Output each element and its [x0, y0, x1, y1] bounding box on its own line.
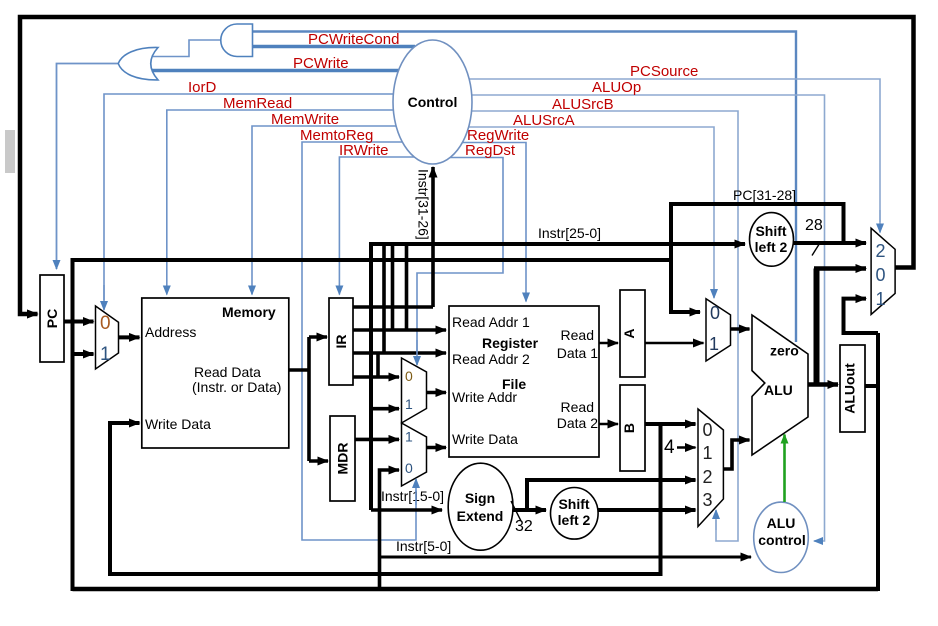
- svg-text:Read Addr 1: Read Addr 1: [452, 314, 530, 330]
- wire: IRWrite: [339, 157, 415, 295]
- svg-text:PCWrite: PCWrite: [293, 55, 349, 72]
- svg-text:Read Addr 2: Read Addr 2: [452, 351, 530, 367]
- wire: address mux output: [119, 335, 140, 339]
- Sign Extend oval: [448, 463, 513, 550]
- wire: MDR to write data mux 1: [355, 438, 399, 442]
- wire: RegDst arrow tip: [416, 340, 418, 365]
- wire: ALUSrcB mux out: [723, 440, 749, 469]
- wire: PC feedback loop (mux output, right/top/left border): [20, 17, 914, 314]
- svg-text:Extend: Extend: [457, 508, 504, 524]
- svg-text:ALUout: ALUout: [842, 363, 858, 414]
- OR gate: [118, 47, 158, 79]
- svg-text:0: 0: [710, 303, 720, 323]
- svg-text:0: 0: [405, 460, 413, 476]
- svg-text:32: 32: [515, 518, 533, 535]
- wire: RegWrite: [460, 143, 526, 302]
- MDR register: [330, 416, 355, 501]
- svg-text:Control: Control: [408, 94, 458, 110]
- wire: PCWrite thick: [152, 69, 400, 73]
- svg-text:Instr[15-0]: Instr[15-0]: [381, 488, 444, 504]
- wire: ALU output: [808, 382, 838, 387]
- bus riser 4: [405, 244, 409, 330]
- A register: [620, 290, 645, 377]
- ALU control oval: [754, 502, 809, 572]
- svg-text:(Instr. or Data): (Instr. or Data): [192, 379, 281, 395]
- wire: AND gate output: [153, 40, 222, 57]
- svg-text:1: 1: [876, 289, 886, 309]
- wire: PCWriteCond thick: [253, 45, 416, 49]
- wire: sign extend out: [513, 508, 546, 512]
- wire: ALUSrcA arrow tip: [713, 280, 715, 298]
- wire: A to ALUSrcA mux 1: [645, 342, 704, 345]
- svg-text:1: 1: [100, 344, 111, 365]
- ALUSrcB mux 0123: [698, 409, 723, 527]
- wire: ALU control to ALU (green): [783, 435, 786, 503]
- wire: PC out vertical branch: [71, 258, 75, 591]
- wire: ALUout feedback to address mux 1: [73, 352, 94, 356]
- svg-text:0: 0: [405, 368, 413, 384]
- 28 slash tick: [812, 242, 821, 256]
- 32 slash tick: [511, 501, 521, 521]
- svg-text:Data 1: Data 1: [557, 345, 598, 361]
- svg-text:PC: PC: [44, 309, 60, 328]
- wire: ALUout to PCSource mux 1: [844, 299, 879, 333]
- write data mux (MemtoReg): [402, 423, 427, 486]
- svg-text:ALU: ALU: [767, 515, 796, 531]
- svg-text:PCWriteCond: PCWriteCond: [308, 31, 399, 48]
- svg-text:B: B: [621, 423, 637, 433]
- svg-text:IRWrite: IRWrite: [339, 142, 388, 159]
- wire: Instr[5-0] to ALU control: [380, 556, 752, 559]
- wire: MemtoReg arrow tip: [415, 479, 417, 505]
- wire: ALUSrcB: [470, 111, 738, 541]
- svg-text:ALUOp: ALUOp: [592, 79, 641, 96]
- wire: ALU result riser to PCSource mux 0: [814, 269, 820, 387]
- wire: write data mux output: [427, 446, 447, 450]
- svg-text:Shift: Shift: [558, 496, 589, 512]
- wire: read data 1 to A: [599, 342, 618, 345]
- wire: PC[31-28] path: [671, 204, 844, 262]
- svg-text:2: 2: [876, 241, 886, 261]
- wire: arrow into MDR: [309, 459, 328, 463]
- svg-text:3: 3: [703, 490, 713, 510]
- wire: PC line (PC value bus): [73, 258, 672, 262]
- Register File box: [449, 306, 599, 457]
- wire: write data riser: [110, 423, 140, 576]
- wire: ALUSrcA mux out: [731, 327, 750, 331]
- wire: to IR and MDR: [307, 337, 311, 461]
- wire: sign extend branch to mux 2: [527, 480, 696, 510]
- wire: IorD arrow tip: [103, 285, 105, 310]
- wire: B to memory write data horizontal: [110, 572, 661, 576]
- svg-text:MDR: MDR: [335, 443, 351, 475]
- write addr mux (RegDst): [402, 358, 427, 423]
- svg-text:Write Data: Write Data: [452, 431, 518, 447]
- wire: ALUOp: [471, 95, 825, 541]
- wire: Instr[25-0] bus: [371, 244, 745, 510]
- Memory box: [142, 298, 289, 448]
- wire: write addr mux input 1: [371, 407, 399, 411]
- ALUSrcA mux: [706, 299, 731, 361]
- PC register: [40, 275, 64, 362]
- wire: shift left 2 out to mux 3: [598, 508, 696, 512]
- wire: write data mux 0 riser: [380, 470, 400, 591]
- IR register: [329, 298, 353, 385]
- svg-text:Write Addr: Write Addr: [452, 389, 517, 405]
- wire: ALUout right vertical: [876, 333, 880, 591]
- wire: zero line to AND gate: [253, 32, 797, 343]
- svg-text:MemWrite: MemWrite: [271, 111, 339, 128]
- svg-text:Data 2: Data 2: [557, 415, 598, 431]
- wire: shift left 2 to PCSource mux 2: [794, 241, 867, 245]
- wire: IR to Read Addr 2: [353, 351, 446, 355]
- wire: read data 2 to B: [599, 423, 618, 426]
- wire: IR out Instr[31-26] horizontal: [353, 305, 433, 309]
- B register: [620, 385, 645, 471]
- wire: MemtoReg: [302, 142, 416, 540]
- svg-text:2: 2: [703, 467, 713, 487]
- svg-text:Register: Register: [482, 335, 539, 351]
- svg-text:Shift: Shift: [755, 223, 786, 239]
- wire: MemRead: [167, 110, 394, 295]
- wire: PC to ALUSrcA mux 0: [671, 260, 700, 312]
- svg-text:Read Data: Read Data: [194, 364, 261, 380]
- Shift left 2 oval (upper): [750, 213, 794, 267]
- svg-text:left 2: left 2: [558, 512, 591, 528]
- svg-text:Instr[5-0]: Instr[5-0]: [396, 538, 451, 554]
- wire: ALUSrcB arrow tip: [715, 510, 717, 530]
- wire: IR to Read Addr 1: [353, 328, 446, 332]
- wire: RegDst: [417, 158, 503, 356]
- svg-text:left 2: left 2: [755, 239, 788, 255]
- wire: PC output to address mux: [64, 320, 94, 324]
- bus riser 2: [382, 244, 386, 353]
- svg-text:ALUSrcB: ALUSrcB: [552, 96, 614, 113]
- svg-text:Address: Address: [145, 324, 196, 340]
- ALUout register: [840, 345, 865, 432]
- svg-text:PCSource: PCSource: [630, 63, 698, 80]
- PCSource mux 2-0-1: [871, 228, 895, 314]
- svg-text:control: control: [758, 532, 805, 548]
- svg-text:0: 0: [100, 313, 111, 334]
- wire: ALUSrcA: [468, 127, 714, 290]
- svg-text:RegDst: RegDst: [465, 142, 516, 159]
- wire: B to ALUSrcB mux 0: [645, 422, 696, 426]
- control oval U-Control: [393, 40, 472, 164]
- wire: PCSource arrow tip: [879, 210, 881, 233]
- svg-text:Instr[25-0]: Instr[25-0]: [538, 225, 601, 241]
- svg-text:0: 0: [703, 420, 713, 440]
- wire: PC input arrow: [22, 312, 38, 316]
- svg-text:Sign: Sign: [465, 490, 495, 506]
- svg-text:1: 1: [709, 334, 719, 354]
- svg-text:PC[31-28]: PC[31-28]: [733, 187, 796, 203]
- wire: Instr[31-26] to Control: [431, 167, 435, 307]
- svg-text:1: 1: [703, 443, 713, 463]
- wire: memory read data out: [289, 368, 309, 372]
- svg-text:4: 4: [664, 437, 675, 458]
- wire: constant 4 to mux 1: [677, 446, 696, 449]
- Shift left 2 oval (lower): [551, 488, 599, 540]
- wire: arrow into IR: [309, 335, 327, 339]
- svg-text:Write Data: Write Data: [145, 416, 211, 432]
- AND gate: [221, 24, 253, 57]
- gray slide-edge fragment: [5, 130, 15, 173]
- svg-text:zero: zero: [770, 343, 799, 359]
- bus riser 3: [391, 244, 395, 330]
- wire: bottom ALUout feedback: [73, 587, 879, 592]
- wire: ALUout output: [865, 384, 878, 388]
- wire: B down riser: [659, 424, 663, 576]
- wire: MemWrite: [252, 126, 397, 295]
- wire: IorD: [104, 94, 394, 300]
- svg-text:1: 1: [405, 429, 413, 445]
- svg-text:ALU: ALU: [764, 382, 793, 398]
- wire: branch from read addr 2 line: [376, 353, 380, 377]
- wire: Instr[15-0] to sign extend: [371, 508, 442, 512]
- svg-text:A: A: [621, 328, 637, 338]
- address mux (IorD): [96, 306, 119, 369]
- svg-text:MemRead: MemRead: [223, 95, 292, 112]
- svg-text:IR: IR: [333, 335, 349, 349]
- svg-text:Instr[31-26]: Instr[31-26]: [416, 169, 432, 240]
- wire: PCSource: [469, 79, 880, 222]
- svg-text:Read: Read: [561, 399, 594, 415]
- wire: OR gate output to PC enable: [57, 64, 119, 270]
- svg-text:IorD: IorD: [188, 79, 217, 96]
- svg-text:0: 0: [876, 265, 886, 285]
- svg-text:Memory: Memory: [222, 304, 276, 320]
- svg-text:Read: Read: [561, 327, 594, 343]
- wire: IR line 4 to write addr mux 0: [353, 375, 399, 379]
- svg-text:28: 28: [805, 217, 823, 234]
- wire: write addr mux output: [427, 391, 447, 395]
- ALU shape: [752, 315, 808, 455]
- svg-text:1: 1: [405, 396, 413, 412]
